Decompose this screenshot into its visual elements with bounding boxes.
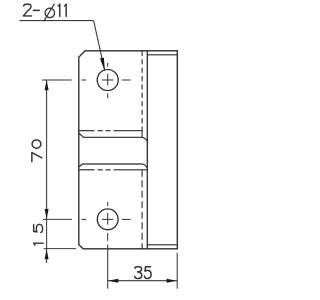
dim 35 left arrow (108, 279, 118, 283)
dim 15 extension tick at plate bottom (44, 248, 76, 250)
band outer bottom line (79, 169, 148, 171)
hole 2 vertical centerline (107, 202, 109, 241)
band inner bottom line (79, 164, 143, 167)
leader arrowhead (100, 58, 105, 72)
dim 35 right arrow (167, 279, 177, 283)
leader line (94, 21, 105, 70)
hidden bend line (dashed vertical, lower) (141, 170, 143, 249)
dim 15 up arrow (outside) (45, 249, 49, 259)
dim 35 line (108, 280, 178, 282)
band top right corner connector (142, 131, 147, 142)
dim 35 extension line right (176, 253, 178, 289)
dim 70 text (vector digits, rotated) (32, 140, 42, 162)
diameter symbol circle (45, 8, 54, 17)
hole 1 horizontal centerline + 70 extension (42, 79, 131, 81)
hole 2 (bottom) circle (97, 209, 118, 230)
band outer top line (79, 130, 143, 132)
dim 70 line (46, 80, 48, 220)
dim 70 top arrow (45, 80, 49, 90)
dim 35 text (vector digits) (135, 267, 151, 279)
plate outline (79, 51, 178, 249)
diameter symbol slash (44, 4, 55, 22)
dim 15 text (vector digits, rotated) (34, 224, 44, 245)
flange inner bottom line (147, 244, 177, 246)
leader shelf line (19, 20, 93, 22)
hole 1 vertical centerline (107, 63, 109, 98)
dim 70/15 shared down arrow (45, 209, 49, 219)
dim 35 extension line left (hole centerline) (107, 245, 109, 289)
hole 1 (top) circle (97, 70, 118, 91)
hole 2 horizontal centerline + 15/70 extension (43, 218, 131, 220)
flange inner top line (147, 54, 177, 56)
flange edge line (bend tangent, solid vertical) (146, 51, 148, 249)
leader note text 2-dia11 (vector) (23, 4, 66, 16)
band bottom right corner connector (143, 164, 148, 168)
hidden bend line (dashed vertical, upper) (141, 51, 143, 131)
dim 15 line tail (46, 219, 48, 263)
band inner top line (79, 133, 142, 137)
